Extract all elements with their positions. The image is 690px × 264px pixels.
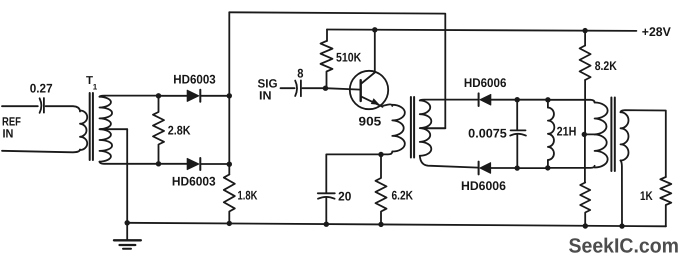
node top row cap junction xyxy=(515,97,520,102)
node diode bus bottom junction xyxy=(227,162,232,167)
svg-text:0.0075: 0.0075 xyxy=(468,127,507,141)
transformer T3 core xyxy=(611,98,614,172)
node REF IN input terminal labels xyxy=(2,115,21,141)
capacitor C 8 xyxy=(295,67,303,97)
svg-text:+28V: +28V xyxy=(642,25,672,39)
transformer T1 core xyxy=(90,93,93,160)
inductor L 21H xyxy=(548,100,576,168)
svg-text:HD6006: HD6006 xyxy=(461,179,506,193)
svg-text:20: 20 xyxy=(338,190,351,204)
svg-text:HD6003: HD6003 xyxy=(173,73,215,87)
svg-text:905: 905 xyxy=(359,115,382,129)
transistor Q1 905 xyxy=(350,71,388,129)
node 8.2K rail junction xyxy=(582,28,587,33)
wire 0.27 cap to T1 primary xyxy=(46,106,80,111)
wire T1 secondary center tap xyxy=(100,128,128,130)
node top row 21H junction xyxy=(545,97,550,102)
node SIG IN input labels xyxy=(258,77,278,103)
resistor R 2.8K xyxy=(153,96,191,164)
diode CR4 HD6006 bottom xyxy=(461,162,517,193)
node emitter bottom junction xyxy=(378,152,383,157)
node collector rail junction xyxy=(372,27,377,32)
node cap20 ground junction xyxy=(324,222,329,227)
diode CR1 HD6003 top xyxy=(159,73,230,102)
svg-text:2.8K: 2.8K xyxy=(168,124,191,138)
node 1.8K ground junction xyxy=(227,221,232,226)
wire T1 secondary top lead xyxy=(100,96,159,97)
ground rail wire xyxy=(127,223,666,227)
node T3 secondary ground junction xyxy=(619,223,624,228)
node 2.8K top junction xyxy=(156,93,161,98)
svg-text:510K: 510K xyxy=(336,51,361,65)
wire T2 primary bottom lead xyxy=(326,152,392,194)
wire bottom row cap to 21H xyxy=(517,167,548,169)
wire cap 8 to base node xyxy=(302,87,325,89)
wire T3 secondary bottom lead to ground rail xyxy=(621,161,623,227)
node bias resistor ground junction xyxy=(583,223,588,228)
node bottom row 21H junction xyxy=(545,165,550,170)
transformer T2 core xyxy=(411,97,414,158)
wire T3 tap node down through bottom row xyxy=(584,134,586,182)
wire T3 primary center tap xyxy=(584,133,594,135)
transformer T1 primary winding xyxy=(80,111,87,151)
capacitor C 0.27 xyxy=(30,82,53,113)
svg-text:IN: IN xyxy=(259,89,272,103)
resistor R 1K xyxy=(640,177,671,226)
wire emitter to T2 primary xyxy=(383,104,392,106)
wire top row cap to 21H xyxy=(517,99,548,101)
node diode bus top junction xyxy=(227,93,232,98)
diode CR3 HD6006 top xyxy=(464,76,517,106)
wire T1 secondary bottom lead xyxy=(100,162,159,164)
wire T2 secondary center tap xyxy=(420,127,445,129)
svg-text:6.2K: 6.2K xyxy=(392,189,414,203)
transformer T2 secondary winding xyxy=(420,100,432,155)
wire 8.2K to T3 center tap xyxy=(584,80,586,134)
wire top row 21H to T3 primary top xyxy=(548,100,595,103)
transformer T3 primary winding upper half xyxy=(595,103,608,135)
svg-text:0.27: 0.27 xyxy=(30,82,53,96)
transformer T3 secondary winding xyxy=(621,112,629,160)
resistor R 1.8K xyxy=(224,175,258,224)
capacitor C 20 xyxy=(318,190,352,225)
node bottom row cap junction xyxy=(515,165,520,170)
svg-text:HD6006: HD6006 xyxy=(464,76,507,90)
svg-text:21H: 21H xyxy=(557,125,577,139)
svg-text:8: 8 xyxy=(297,67,303,81)
resistor R 6.2K xyxy=(376,155,414,225)
capacitor C 0.0075 xyxy=(468,100,526,168)
svg-text:IN: IN xyxy=(3,127,14,141)
wire top rail from diode bus to T2 center tap xyxy=(229,12,445,128)
wire collector to +28V rail xyxy=(374,30,376,73)
wire SIG IN lead xyxy=(281,87,295,89)
transformer T1 label T1 xyxy=(86,75,98,92)
diode CR2 HD6003 bottom xyxy=(159,158,230,189)
wire center tap down to ground rail xyxy=(126,129,128,223)
wire diode output bus vertical xyxy=(228,12,230,174)
wire T2 secondary bottom lead xyxy=(420,156,478,168)
svg-text:1.8K: 1.8K xyxy=(238,189,258,203)
node 6.2K ground junction xyxy=(378,222,383,227)
transformer T3 primary winding lower half xyxy=(595,134,608,167)
transformer T1 secondary winding xyxy=(100,97,113,162)
svg-text:1: 1 xyxy=(93,83,98,92)
transformer T2 primary winding xyxy=(392,105,405,152)
svg-text:8.2K: 8.2K xyxy=(595,59,617,73)
wire REF IN top lead xyxy=(2,105,38,107)
resistor R 8.2K xyxy=(580,31,617,80)
svg-text:1K: 1K xyxy=(640,189,653,203)
svg-text:HD6003: HD6003 xyxy=(172,175,216,189)
wire base node to transistor base xyxy=(326,88,361,89)
svg-text:SeekIC.com: SeekIC.com xyxy=(569,235,680,258)
node T3 tap junction xyxy=(582,132,587,137)
wire T3 secondary top lead to 1K xyxy=(621,110,666,177)
resistor R 510K xyxy=(321,30,362,89)
wire T2 secondary top lead xyxy=(420,99,478,102)
resistor R bias bottom (unlabeled) xyxy=(580,183,590,227)
node T1 tap ground junction xyxy=(125,220,130,225)
ground symbol xyxy=(114,223,141,249)
node 2.8K bottom junction xyxy=(156,161,161,166)
wire +28V supply rail xyxy=(327,30,636,31)
wire REF IN bottom lead xyxy=(2,150,80,153)
node base junction xyxy=(323,86,328,91)
wire bottom row 21H to T3 primary bottom xyxy=(548,166,595,168)
